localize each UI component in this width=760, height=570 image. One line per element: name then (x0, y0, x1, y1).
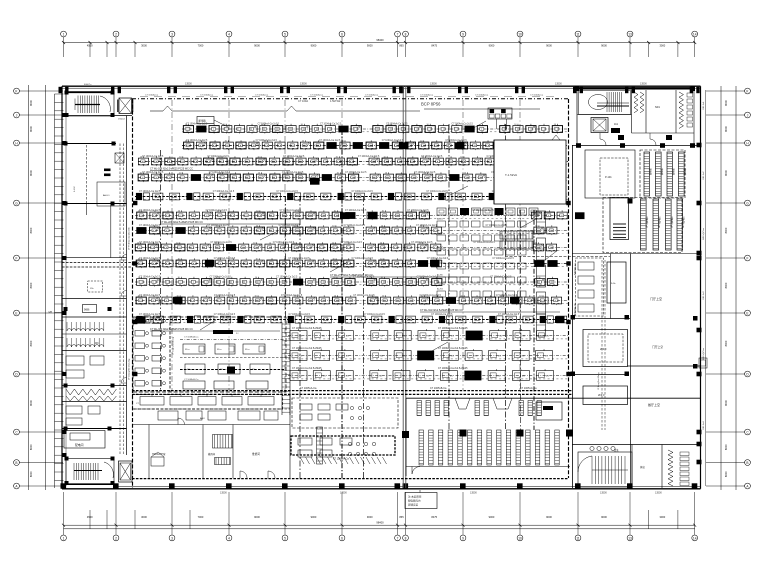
svg-text:配电箱均为: 配电箱均为 (408, 499, 421, 503)
building outer wall bottom (62, 488, 701, 490)
svg-text:10: 10 (138, 211, 140, 213)
svg-text:C7 1004xA-Ca 2x2.5: C7 1004xA-Ca 2x2.5 (411, 241, 433, 244)
svg-text:C7 1006xA-Ca 2x2.5+PE25: C7 1006xA-Ca 2x2.5+PE25 (438, 367, 468, 370)
equipment row (138, 161, 568, 163)
dashed pair vertical right rooms (601, 260, 603, 430)
svg-text:F: F (16, 256, 18, 260)
svg-text:E: E (746, 311, 748, 315)
svg-text:C7 1004xA-Ca 2x2.5: C7 1004xA-Ca 2x2.5 (352, 190, 374, 193)
top-right WC stalls left (634, 92, 638, 113)
svg-text:人 和净化: 人 和净化 (137, 319, 148, 323)
svg-text:8000: 8000 (29, 126, 33, 132)
svg-text:14: 14 (693, 32, 697, 36)
svg-text:8000: 8000 (724, 471, 728, 477)
svg-text:C7 WL-311 N2x2.5+PE25 PC25 WC: C7 WL-311 N2x2.5+PE25 PC25 WC CC (420, 309, 463, 312)
svg-text:7: 7 (397, 536, 399, 540)
svg-text:C7 1004xA-Ca 2x2.5: C7 1004xA-Ca 2x2.5 (289, 313, 311, 316)
svg-text:10: 10 (138, 259, 140, 261)
strong vertical riser x342 (341, 130, 343, 478)
svg-text:8000: 8000 (724, 282, 728, 288)
svg-text:10: 10 (294, 296, 296, 298)
svg-text:C7 1006xA-Ca 2x2.5+PE25: C7 1006xA-Ca 2x2.5+PE25 (438, 327, 468, 330)
expansion joint double line (402, 86, 404, 488)
svg-text:14: 14 (693, 536, 697, 540)
svg-text:8000: 8000 (29, 227, 33, 233)
cleanroom band divider (180, 357, 284, 359)
svg-text:10: 10 (334, 211, 336, 213)
upper partition with doors (150, 110, 163, 112)
svg-text:C7 1004xA-Ca 2x2.5: C7 1004xA-Ca 2x2.5 (256, 139, 278, 142)
equipment room boxes band 3 (183, 381, 205, 389)
svg-text:10: 10 (215, 243, 217, 245)
svg-text:C7 1006xA-Ca: C7 1006xA-Ca (333, 458, 349, 461)
svg-text:10: 10 (216, 296, 218, 298)
door notch white room (552, 135, 560, 140)
svg-text:13500: 13500 (300, 82, 307, 85)
left strip label box 9696 (83, 305, 97, 313)
svg-text:8000: 8000 (724, 444, 728, 450)
top-right lower corridor marks (600, 133, 606, 146)
svg-text:10: 10 (381, 277, 383, 279)
lower-left rooms walls (132, 424, 290, 426)
svg-text:10: 10 (257, 157, 259, 159)
svg-text:10: 10 (254, 296, 256, 298)
hall left wall dashed (132, 99, 134, 488)
svg-text:11: 11 (576, 536, 580, 540)
big room 2 box (583, 330, 628, 367)
svg-text:C7 1008xA-Ca: C7 1008xA-Ca (184, 336, 199, 339)
left strip dark bars (104, 169, 111, 172)
svg-text:13500: 13500 (340, 492, 347, 495)
svg-text:P-101: P-101 (605, 176, 612, 179)
svg-text:10: 10 (256, 259, 258, 261)
top wall column pairs (59, 87, 62, 93)
svg-text:10: 10 (382, 211, 384, 213)
svg-text:B: B (746, 461, 748, 465)
left strip corridor dashed crossing (62, 262, 131, 264)
lab room dashed outline (291, 436, 395, 455)
cleanroom dark label bar (213, 330, 233, 334)
hall right wall (568, 99, 570, 478)
svg-text:9000: 9000 (601, 515, 607, 519)
svg-text:8000: 8000 (724, 227, 728, 233)
svg-text:10: 10 (256, 226, 258, 228)
svg-text:JSD-1a1: JSD-1a1 (703, 101, 705, 110)
svg-text:10: 10 (178, 211, 180, 213)
svg-text:C7 1004xA-Ca 2x2.5: C7 1004xA-Ca 2x2.5 (139, 275, 161, 278)
lower-left second band boxes (158, 411, 178, 420)
left axis bubbles and leader lines (14, 88, 20, 94)
svg-text:10: 10 (333, 277, 335, 279)
svg-text:C7 1004xA-Ca 2x2.5: C7 1004xA-Ca 2x2.5 (492, 257, 514, 260)
hall column grid dashed lines (171, 100, 173, 390)
svg-text:C7 1006xA-Ca 2x2.5+PE25: C7 1006xA-Ca 2x2.5+PE25 (292, 327, 322, 330)
svg-text:13500: 13500 (430, 82, 437, 85)
small panel label box (197, 117, 214, 124)
svg-text:10: 10 (185, 141, 187, 143)
svg-text:AL238: AL238 (437, 232, 444, 235)
left strip wall y298 (62, 298, 127, 300)
lab upper room (292, 398, 398, 428)
svg-text:C7 100A: C7 100A (298, 99, 308, 103)
svg-text:AL294: AL294 (437, 288, 444, 291)
svg-text:98400: 98400 (376, 38, 384, 42)
left strip hall-side wall (126, 116, 128, 456)
svg-text:模具间: 模具间 (208, 452, 216, 456)
svg-text:嵌墙安装: 嵌墙安装 (408, 503, 419, 507)
svg-text:3000: 3000 (659, 515, 665, 519)
left axis dimension lines (27, 85, 29, 490)
auditorium side room (536, 402, 562, 420)
svg-text:C7 100xA-Ca: C7 100xA-Ca (310, 94, 324, 97)
left outside walkway ladder (54, 94, 56, 488)
duct shaft ladder (281, 323, 283, 416)
room above bottom-left stair (64, 431, 105, 449)
svg-text:3: 3 (171, 536, 173, 540)
svg-text:B: B (15, 461, 17, 465)
svg-text:注:本层照明: 注:本层照明 (408, 495, 422, 499)
building outer wall left (61, 86, 63, 489)
svg-text:C7 1004xA-Ca 2x2.5: C7 1004xA-Ca 2x2.5 (282, 171, 304, 174)
svg-text:BCP 8P56: BCP 8P56 (421, 102, 441, 107)
svg-text:10: 10 (427, 124, 429, 126)
svg-text:10: 10 (294, 259, 296, 261)
svg-text:C7 1006xA-Ca 2x2.5+PE25: C7 1006xA-Ca 2x2.5+PE25 (292, 367, 322, 370)
svg-text:1.5M W2: 1.5M W2 (330, 99, 341, 103)
svg-text:C7 1004xA-Ca 2x2.5: C7 1004xA-Ca 2x2.5 (451, 122, 473, 125)
left strip elevator box (115, 153, 124, 163)
svg-text:6: 6 (341, 32, 343, 36)
svg-text:8000: 8000 (29, 282, 33, 288)
svg-text:9000: 9000 (367, 43, 373, 47)
svg-text:AHU-1: AHU-1 (103, 194, 110, 197)
svg-text:13500: 13500 (220, 492, 227, 495)
svg-text:1F QiangShi DianJing: 1F QiangShi DianJing (129, 358, 131, 380)
left strip room dashed box (88, 281, 103, 292)
svg-text:10: 10 (253, 243, 255, 245)
svg-text:60007n: 60007n (84, 84, 92, 86)
hall heavy vertical riser (299, 196, 301, 478)
elevator bottom-left (119, 461, 133, 482)
svg-text:10: 10 (460, 157, 462, 159)
svg-text:9-1b: 9-1b (611, 283, 616, 285)
svg-text:10: 10 (185, 124, 187, 126)
svg-text:C7 1004xA-Ca 2x2.5: C7 1004xA-Ca 2x2.5 (276, 275, 298, 278)
svg-text:13500: 13500 (640, 82, 647, 85)
svg-text:10: 10 (264, 141, 266, 143)
svg-text:C7 100xA-Ca: C7 100xA-Ca (475, 94, 489, 97)
svg-text:C7 100xA-Ca: C7 100xA-Ca (145, 94, 159, 97)
svg-text:C7 100xA-Ca: C7 100xA-Ca (255, 94, 269, 97)
auditorium doors top (455, 398, 470, 409)
svg-text:配电箱: 配电箱 (199, 119, 207, 123)
svg-text:8000: 8000 (29, 400, 33, 406)
svg-text:C7 1004xA-Ca 2x2.5: C7 1004xA-Ca 2x2.5 (283, 155, 305, 158)
white room T-1.5kVA (494, 140, 566, 204)
left wall columns (62, 113, 67, 117)
wall below stair block (62, 115, 132, 117)
svg-text:3: 3 (171, 32, 173, 36)
svg-text:10: 10 (422, 157, 424, 159)
svg-text:10: 10 (518, 32, 522, 36)
rack room lower (603, 198, 682, 253)
auditorium main bench strips (419, 430, 423, 465)
store zone dashed inner (576, 258, 604, 316)
bottom-right block walls (572, 444, 700, 446)
svg-text:C7 WL-276 N2x2.5+PE25 PC25 WC: C7 WL-276 N2x2.5+PE25 PC25 WC CC (330, 274, 373, 277)
left strip door arcs (121, 255, 127, 261)
left strip WC scallop row 2 (67, 345, 104, 347)
svg-text:10: 10 (218, 157, 220, 159)
svg-text:10: 10 (332, 259, 334, 261)
svg-text:10: 10 (337, 173, 339, 175)
lab desk circles (348, 442, 351, 445)
equipment row (135, 263, 568, 265)
svg-text:C7 1004xA-Ca 2x2.5: C7 1004xA-Ca 2x2.5 (139, 294, 161, 297)
svg-text:JSD-1a2: JSD-1a2 (703, 171, 705, 180)
svg-text:10: 10 (384, 157, 386, 159)
svg-text:10: 10 (420, 141, 422, 143)
room left of racks (585, 150, 635, 198)
svg-text:C7 1004xA-Ca 2x2.5: C7 1004xA-Ca 2x2.5 (139, 313, 161, 316)
svg-text:10: 10 (258, 173, 260, 175)
right rooms black columns (571, 315, 576, 320)
svg-text:10: 10 (294, 226, 296, 228)
bottom-right WC stalls (668, 450, 673, 486)
left strip rooms 401-428 (66, 406, 82, 414)
top-right block walls (576, 88, 578, 146)
bottom-right toilets circles (590, 446, 594, 450)
main corridor double dashed line (132, 390, 572, 392)
callout leader lines (450, 186, 468, 195)
svg-text:2: 2 (115, 536, 117, 540)
svg-text:1b1: 1b1 (614, 123, 619, 126)
svg-text:9000: 9000 (311, 43, 317, 47)
svg-text:865: 865 (399, 515, 404, 519)
svg-text:8000: 8000 (29, 100, 33, 106)
svg-text:11: 11 (576, 32, 580, 36)
svg-text:C7 1004xA-Ca 2x2.5: C7 1004xA-Ca 2x2.5 (474, 241, 496, 244)
top intermediate ticks (89, 43, 91, 58)
cleanroom block outline (133, 317, 286, 392)
svg-text:10: 10 (332, 226, 334, 228)
svg-text:10: 10 (217, 211, 219, 213)
auditorium columns (460, 430, 467, 437)
tall thin boxes column x537 (537, 211, 546, 233)
svg-text:10: 10 (380, 243, 382, 245)
legend box bottom (405, 493, 437, 509)
svg-text:餐厅上空: 餐厅上空 (648, 402, 660, 407)
svg-text:10: 10 (140, 157, 142, 159)
svg-text:C7 1005xC-Ca: C7 1005xC-Ca (520, 387, 537, 390)
svg-text:C7 1004xA-Ca 2x2.5: C7 1004xA-Ca 2x2.5 (345, 209, 367, 212)
svg-text:C7 1006xA-Ca 2x2.5+PE25: C7 1006xA-Ca 2x2.5+PE25 (292, 347, 322, 350)
svg-text:1F JingHuaZouLang: 1F JingHuaZouLang (173, 337, 175, 355)
svg-text:10: 10 (178, 259, 180, 261)
stair block corner columns (65, 91, 69, 95)
left strip rooms 352-385 (66, 356, 84, 365)
stair room bottom-left (66, 459, 114, 485)
svg-text:10: 10 (387, 124, 389, 126)
svg-text:10: 10 (500, 296, 502, 298)
svg-text:C7 1004xA-Ca 2x2.5: C7 1004xA-Ca 2x2.5 (214, 313, 236, 316)
svg-text:1: 1 (63, 32, 65, 36)
svg-text:1: 1 (63, 536, 65, 540)
svg-text:C7 1004xA-Ca 2x2.5: C7 1004xA-Ca 2x2.5 (445, 139, 467, 142)
equipment room boxes band 2 (185, 364, 205, 374)
svg-text:10: 10 (140, 173, 142, 175)
svg-text:9: 9 (462, 536, 464, 540)
bottom intermediate ticks (89, 510, 91, 529)
svg-text:8000: 8000 (724, 340, 728, 346)
hall boundary column blocks (133, 201, 137, 205)
svg-text:WC: WC (95, 343, 99, 345)
svg-text:E: E (15, 311, 17, 315)
left strip WC sawtooth row 3 (66, 389, 116, 395)
right wall fixture box (699, 358, 707, 368)
svg-text:8000: 8000 (29, 444, 33, 450)
svg-text:8: 8 (405, 536, 407, 540)
building outer wall right (700, 86, 702, 489)
svg-text:C7 1004xA-Ca 2x2.5: C7 1004xA-Ca 2x2.5 (485, 224, 507, 227)
svg-text:10: 10 (138, 277, 140, 279)
svg-text:10: 10 (381, 226, 383, 228)
svg-text:8000: 8000 (29, 170, 33, 176)
svg-text:13500: 13500 (555, 82, 562, 85)
svg-text:7: 7 (397, 32, 399, 36)
svg-text:10: 10 (255, 277, 257, 279)
svg-text:9000: 9000 (254, 515, 260, 519)
schedule box (488, 108, 512, 119)
svg-text:9000: 9000 (489, 515, 495, 519)
svg-text:9000: 9000 (254, 43, 260, 47)
svg-text:C7 1004xA-Ca 2x2.5: C7 1004xA-Ca 2x2.5 (139, 190, 161, 193)
corridor right side (572, 253, 700, 255)
svg-text:C7 1004xA-Ca 2x2.5: C7 1004xA-Ca 2x2.5 (382, 139, 404, 142)
bottom wall columns (61, 483, 67, 488)
svg-text:10: 10 (518, 536, 522, 540)
svg-text:10: 10 (215, 277, 217, 279)
svg-text:C7 1004xA-Ca 2x2.5: C7 1004xA-Ca 2x2.5 (352, 257, 374, 260)
svg-text:10: 10 (302, 141, 304, 143)
auditorium door arcs bottom (412, 466, 420, 474)
svg-text:C7 1004xA-Ca 2x2.5: C7 1004xA-Ca 2x2.5 (276, 190, 298, 193)
svg-text:10: 10 (225, 141, 227, 143)
equipment row (135, 300, 568, 302)
left strip WC wall y317 (62, 316, 127, 318)
svg-text:C7 1004xA-Ca 2x2.5: C7 1004xA-Ca 2x2.5 (320, 122, 342, 125)
svg-text:8000: 8000 (29, 471, 33, 477)
svg-text:10: 10 (179, 173, 181, 175)
auditorium outline (406, 397, 700, 399)
svg-text:9000: 9000 (601, 43, 607, 47)
lower rack room inner box (610, 198, 629, 240)
svg-text:C7 1004xA-Ca 2x2.5: C7 1004xA-Ca 2x2.5 (427, 257, 449, 260)
top axis bubbles and extension lines (61, 31, 67, 37)
equipment row (135, 230, 568, 232)
svg-text:9000: 9000 (489, 43, 495, 47)
elevator top-left (119, 98, 132, 114)
svg-text:10: 10 (421, 211, 423, 213)
rack room upper (640, 150, 685, 198)
svg-text:C7 1004xA-Ca 2x2.5: C7 1004xA-Ca 2x2.5 (139, 257, 161, 260)
svg-text:C7 1004xA-Ca 2x2.5: C7 1004xA-Ca 2x2.5 (139, 224, 161, 227)
svg-text:8000: 8000 (724, 400, 728, 406)
svg-text:C7 100xA-Ca: C7 100xA-Ca (530, 94, 544, 97)
left strip shaft dashed verticals (119, 144, 121, 456)
svg-text:C7 1004xA-Ca 2x2.5: C7 1004xA-Ca 2x2.5 (407, 209, 429, 212)
top-right WC stalls right (679, 92, 684, 128)
svg-text:3000: 3000 (141, 43, 147, 47)
svg-text:C7 1004xA-Ca 2x2.5: C7 1004xA-Ca 2x2.5 (186, 139, 208, 142)
equipment row (135, 281, 568, 283)
svg-text:2: 2 (115, 32, 117, 36)
cleanroom shaft wall (169, 323, 171, 393)
svg-text:C7 1004xA-Ca 2x2.5: C7 1004xA-Ca 2x2.5 (288, 257, 310, 260)
left strip wall y203 bold (62, 203, 127, 205)
equipment row (135, 215, 568, 217)
tall inner box room1 (607, 262, 626, 303)
svg-text:8: 8 (405, 32, 407, 36)
svg-text:10: 10 (461, 296, 463, 298)
svg-text:10: 10 (336, 157, 338, 159)
right wall columns (697, 143, 702, 148)
svg-text:10: 10 (332, 243, 334, 245)
svg-text:10: 10 (380, 259, 382, 261)
svg-text:配电间: 配电间 (75, 443, 84, 447)
svg-text:10: 10 (421, 296, 423, 298)
svg-text:3000: 3000 (141, 515, 147, 519)
svg-text:10: 10 (334, 296, 336, 298)
svg-text:C7 1004xA-Ca 2x2.5: C7 1004xA-Ca 2x2.5 (209, 275, 231, 278)
left strip room right wall (110, 204, 112, 258)
svg-text:C7 1004xA-Ca 2x2.5: C7 1004xA-Ca 2x2.5 (358, 155, 380, 158)
svg-text:10: 10 (294, 211, 296, 213)
lab ladder column (317, 427, 323, 464)
svg-text:JSD-1a3: JSD-1a3 (703, 291, 705, 300)
svg-text:T-1.5kVA: T-1.5kVA (505, 173, 517, 177)
svg-text:C7 1004xA-Ca 2x2.5: C7 1004xA-Ca 2x2.5 (345, 171, 367, 174)
svg-text:F: F (747, 256, 749, 260)
svg-text:10: 10 (298, 173, 300, 175)
svg-text:1KM+QiTiao: 1KM+QiTiao (703, 227, 705, 240)
svg-text:7000: 7000 (198, 515, 204, 519)
svg-text:维修间: 维修间 (252, 452, 260, 456)
svg-text:13: 13 (628, 536, 632, 540)
svg-text:4500: 4500 (87, 43, 93, 47)
small panel grid zone (437, 221, 446, 227)
svg-text:10: 10 (464, 173, 466, 175)
svg-text:10: 10 (514, 124, 516, 126)
equipment row (182, 128, 568, 130)
partition extension right (424, 108, 540, 110)
left strip big room inner wall (85, 204, 87, 216)
svg-text:13500: 13500 (600, 492, 607, 495)
svg-text:10: 10 (217, 259, 219, 261)
svg-text:C7 1004xA-Ca 2x2.5: C7 1004xA-Ca 2x2.5 (344, 224, 366, 227)
svg-text:9000: 9000 (546, 43, 552, 47)
svg-text:C7 1004xA-Ca 2x2.5: C7 1004xA-Ca 2x2.5 (319, 139, 341, 142)
svg-text:8475: 8475 (431, 515, 437, 519)
lower-left room fixtures (151, 457, 164, 466)
svg-text:C7 100xA-Ca: C7 100xA-Ca (420, 94, 434, 97)
svg-text:C7 1004xA-Ca 2x2.5: C7 1004xA-Ca 2x2.5 (186, 122, 208, 125)
lower-left door arcs (240, 471, 247, 479)
svg-text:9000: 9000 (367, 515, 373, 519)
svg-text:10: 10 (554, 124, 556, 126)
svg-text:5: 5 (284, 32, 286, 36)
scattered black units (340, 212, 350, 219)
